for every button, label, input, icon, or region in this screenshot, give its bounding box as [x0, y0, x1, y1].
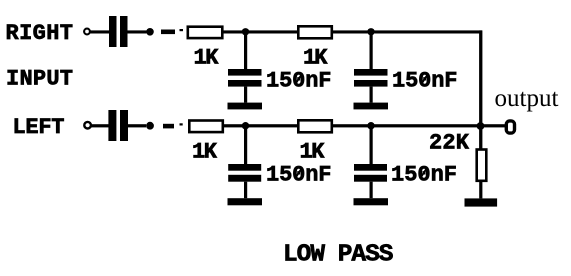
node dot bottom-C junction C4 — [367, 122, 374, 129]
resistor R4 bottom 1K box — [298, 120, 332, 132]
capacitor C1 top: wire down — [244, 33, 247, 69]
resistor R3 bottom 1K box — [189, 121, 223, 133]
wire R3 to R4 — [224, 124, 298, 127]
resistor R1 top 1K box — [188, 27, 223, 38]
resistor R5 22K vertical box — [477, 150, 487, 181]
capacitor C3 plate 2 — [228, 175, 261, 182]
capacitor C2 plate 1 — [354, 69, 388, 76]
node output terminal O — [506, 121, 514, 133]
resistor R5 stem — [479, 181, 482, 198]
capacitor C2 plate 2 — [354, 80, 388, 87]
capacitor C2 top: wire down — [370, 33, 373, 69]
svg-text:150nF: 150nF — [266, 69, 332, 94]
capacitor C3 plate 1 — [228, 164, 261, 171]
capacitor C-in right plate 2 — [120, 16, 128, 47]
wire terminal to C-in right — [90, 30, 110, 33]
wire R4 to output — [332, 124, 506, 127]
node dot top-A — [146, 28, 154, 36]
wire right vertical top-to-bottom — [479, 30, 482, 148]
node dot top-B junction C1 — [242, 28, 249, 35]
svg-text:LOW PASS: LOW PASS — [283, 242, 394, 269]
node dot bottom-A — [146, 122, 154, 130]
wire R1 to R2 — [223, 30, 298, 33]
node LEFT input terminal — [84, 122, 91, 129]
node dot bottom-B junction C3 — [242, 122, 249, 129]
svg-text:150nF: 150nF — [391, 163, 457, 188]
node RIGHT input terminal — [84, 29, 90, 35]
capacitor C1 stem — [244, 87, 247, 103]
ground R5 — [465, 198, 498, 206]
capacitor C4 bottom: wire down — [370, 127, 373, 164]
svg-text:1K: 1K — [192, 139, 218, 164]
slashed zero C1 label — [295, 74, 302, 85]
svg-text:RIGHT: RIGHT — [6, 21, 74, 46]
svg-text:output: output — [495, 85, 559, 112]
svg-text:1K: 1K — [194, 46, 220, 71]
svg-text:1K: 1K — [303, 46, 328, 71]
capacitor C3 stem — [244, 182, 247, 199]
svg-text:INPUT: INPUT — [6, 67, 73, 92]
capacitor C1 plate 2 — [228, 80, 262, 87]
capacitor C-in right plate 1 — [109, 16, 117, 47]
capacitor C4 plate 2 — [354, 175, 387, 182]
capacitor C-in left plate 2 — [120, 110, 128, 141]
capacitor C4 plate 1 — [354, 164, 387, 171]
wire R2 to right corner — [332, 30, 483, 33]
capacitor C4 stem — [370, 182, 373, 199]
svg-text:22K: 22K — [429, 131, 470, 156]
ground C2 top — [354, 103, 389, 110]
wire cap to junction — [128, 124, 146, 127]
slashed zero C2 label — [421, 74, 428, 85]
wire terminal to C-in left — [91, 124, 109, 127]
ground C1 top — [228, 103, 263, 110]
wire tick top — [180, 29, 184, 31]
wire tick bottom — [180, 123, 183, 125]
resistor R2 top 1K box — [298, 26, 332, 38]
capacitor C1 plate 1 — [228, 69, 262, 76]
capacitor C3 bottom: wire down — [244, 127, 247, 164]
wire cap to junction — [128, 30, 147, 33]
capacitor C-in left plate 1 — [108, 110, 116, 141]
capacitor C2 stem — [370, 87, 373, 103]
ground C3 bottom — [228, 198, 263, 205]
slashed zero C3 label — [295, 168, 302, 179]
node dot output junction — [477, 122, 485, 130]
wire dash segment bottom — [163, 124, 174, 129]
svg-text:LEFT: LEFT — [13, 115, 65, 140]
ground C4 bottom — [354, 198, 389, 205]
wire dash segment top — [161, 30, 175, 35]
node dot top-C junction C2 — [367, 28, 374, 35]
slashed zero C4 label — [420, 168, 427, 179]
svg-text:1K: 1K — [300, 139, 326, 164]
svg-text:150nF: 150nF — [392, 69, 458, 94]
svg-text:150nF: 150nF — [266, 163, 332, 188]
